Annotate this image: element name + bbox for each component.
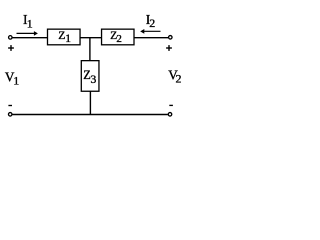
svg-text:2: 2 [176,72,182,86]
label: V1 [5,70,19,88]
svg-text:3: 3 [91,73,97,86]
svg-text:2: 2 [116,33,122,45]
label: I2 [146,12,156,30]
impedance Z2 (series box) [102,29,134,45]
terminal: port 1 negative [8,113,12,117]
wire: bottom rail [12,114,168,116]
current arrow I1 [17,31,38,36]
wire: Z2 to port 2 (top-right rail) [134,37,168,39]
terminal: port 2 positive [169,36,173,40]
label: minus sign port 2 [169,104,173,106]
wire: port1 to Z1 (top-left rail) [12,37,47,39]
label: plus sign port 2 [166,45,172,51]
svg-text:1: 1 [13,73,19,87]
label: minus sign port 1 [8,105,12,107]
current arrow I2 [140,29,160,34]
label: Z2 [110,29,122,45]
svg-text:2: 2 [149,16,155,30]
label: Z3 [83,68,96,86]
impedance Z3 (shunt box) [81,61,99,92]
wire: Z3 down to bottom rail [89,91,91,114]
impedance Z1 (series box) [48,29,81,45]
label: V2 [168,67,181,85]
terminal: port 1 positive [9,36,13,40]
svg-text:1: 1 [65,33,71,45]
wire: junction down to Z3 [89,38,91,61]
wire: Z1 to Z2 (top-middle rail) [80,37,102,39]
terminal: port 2 negative [168,113,172,117]
label: plus sign port 1 [8,45,14,51]
svg-text:1: 1 [27,17,33,31]
label: Z1 [58,29,71,45]
label: I1 [23,12,33,30]
